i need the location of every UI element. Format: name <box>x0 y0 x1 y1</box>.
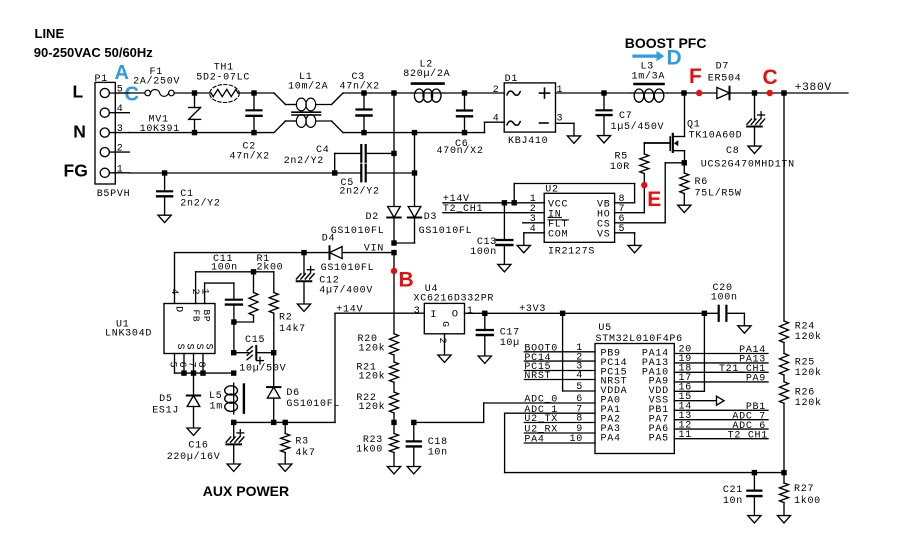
capacitor C15 10u/50V (electrolytic) <box>234 352 249 354</box>
resistor R27 1k00 <box>783 473 785 483</box>
connector P1 B5PVH <box>95 82 115 184</box>
svg-text:C4: C4 <box>316 145 329 156</box>
junction VDD riser <box>702 311 707 316</box>
junction C4 left (FG) <box>332 170 337 175</box>
net label PA14 / U5 pin20 <box>674 353 768 355</box>
wire VIN row <box>344 252 395 254</box>
svg-text:R25: R25 <box>795 358 815 369</box>
svg-text:B5PVH: B5PVH <box>97 189 131 200</box>
wire +3V3 rail <box>465 312 719 314</box>
diode D4 GS1010FL <box>330 247 343 259</box>
svg-text:T2_CH1: T2_CH1 <box>728 430 768 441</box>
capacitor C1 2n2/Y2 <box>164 173 166 191</box>
svg-text:1: 1 <box>117 164 124 175</box>
svg-text:O: O <box>452 309 459 321</box>
wire Q1 source to CS <box>665 162 684 164</box>
inductor L3 1m/3A <box>631 92 668 94</box>
svg-text:10n: 10n <box>723 496 743 507</box>
capacitor C13 100n <box>503 203 505 240</box>
ground (R27) <box>777 516 790 523</box>
wire N rail P1 to L1 <box>129 132 274 134</box>
resistor R3 4k7 <box>284 422 286 433</box>
junction C3 top <box>361 90 366 95</box>
net label PB1 / U5 pin14 <box>674 409 768 411</box>
junction MV1 bottom <box>192 130 197 135</box>
wire VDD riser <box>703 313 705 391</box>
svg-text:TK10A60D: TK10A60D <box>689 131 743 142</box>
svg-text:8: 8 <box>195 362 206 369</box>
diode D6 GS1010FL <box>273 353 275 387</box>
svg-text:R27: R27 <box>794 484 814 495</box>
svg-text:GS1010FL: GS1010FL <box>321 263 375 274</box>
svg-text:10n: 10n <box>428 448 448 459</box>
svg-text:14k7: 14k7 <box>279 323 306 335</box>
svg-text:PA4: PA4 <box>601 433 621 444</box>
svg-text:COM: COM <box>548 230 568 241</box>
ground (C17) <box>478 356 491 363</box>
svg-text:90-250VAC 50/60Hz: 90-250VAC 50/60Hz <box>34 45 153 60</box>
svg-text:2A/250V: 2A/250V <box>133 76 180 88</box>
svg-text:120k: 120k <box>795 367 822 379</box>
svg-text:NRST: NRST <box>524 371 551 382</box>
svg-text:STM32L010F4P6: STM32L010F4P6 <box>596 334 683 345</box>
junction VDDA riser <box>560 311 565 316</box>
svg-text:10m/2A: 10m/2A <box>288 80 328 92</box>
wire D1 pin1 to C7 <box>556 92 605 94</box>
capacitor C21 10n <box>753 473 755 491</box>
junction C2 bottom <box>251 130 256 135</box>
svg-text:FG: FG <box>64 161 88 181</box>
svg-text:4: 4 <box>168 289 179 296</box>
svg-text:120k: 120k <box>359 401 386 413</box>
svg-text:Q1: Q1 <box>687 120 700 131</box>
svg-text:U2: U2 <box>545 184 558 195</box>
capacitor C3 47n/X2 <box>357 108 372 110</box>
svg-text:AUX POWER: AUX POWER <box>203 483 289 499</box>
svg-text:10R: 10R <box>610 162 630 173</box>
transistor Q1 TK10A60D (MOSFET) <box>684 93 686 137</box>
wire L3 to Q1 node <box>668 92 685 94</box>
ground (U2 COM) <box>517 245 530 252</box>
svg-text:P1: P1 <box>95 74 108 85</box>
capacitor C7 1u5/450V <box>597 109 612 111</box>
wire +14V to U4 pin3 <box>335 312 424 314</box>
junction R3 top <box>283 420 288 425</box>
svg-text:D: D <box>173 306 184 313</box>
net label T21_CH1 / U5 pin18 <box>674 371 768 373</box>
IC U2 IR2127S <box>544 193 614 242</box>
svg-text:2n2/Y2: 2n2/Y2 <box>180 198 220 210</box>
wire N rail to D1 pin4 <box>415 132 485 134</box>
svg-text:R24: R24 <box>795 322 815 333</box>
svg-text:LINE: LINE <box>35 26 65 41</box>
wire ADC_0 sense <box>414 421 484 423</box>
svg-text:7: 7 <box>186 362 197 369</box>
svg-text:75L/R5W: 75L/R5W <box>695 188 742 200</box>
junction C15 left <box>231 350 236 355</box>
wire C7 to L3 <box>604 92 631 94</box>
junction C21 tap <box>752 470 757 475</box>
svg-text:C21: C21 <box>723 485 743 496</box>
svg-text:L: L <box>73 82 84 102</box>
resistor R6 75L/R5W <box>683 163 685 173</box>
wire HO to R5 <box>615 212 645 214</box>
svg-text:KBJ410: KBJ410 <box>508 136 548 147</box>
varistor MV1 10K391 <box>194 93 196 108</box>
thermistor TH1 5D2-07LC <box>211 89 238 96</box>
stub U2 pin3 FLT <box>523 222 545 224</box>
diode D3 GS1010FL <box>414 133 416 173</box>
junction MV1 top <box>192 90 197 95</box>
svg-text:D1: D1 <box>505 74 518 85</box>
junction C18 tap <box>411 420 416 425</box>
wire ADC_1 to HV divider <box>504 413 506 472</box>
svg-text:PA5: PA5 <box>649 433 669 444</box>
svg-text:GS1010FL: GS1010FL <box>331 226 385 237</box>
svg-text:L5: L5 <box>209 391 222 402</box>
svg-text:U5: U5 <box>598 323 611 334</box>
junction S rail / C11 line <box>231 370 236 375</box>
wire VDDA riser <box>562 313 564 391</box>
wire U5 pin16 VDD riser <box>674 390 704 392</box>
svg-text:3: 3 <box>117 124 124 135</box>
capacitor C16 220u/16V (electrolytic) <box>233 422 235 437</box>
wire +380V divider drop <box>783 93 785 321</box>
capacitor C17 10u <box>484 313 486 330</box>
svg-text:S: S <box>193 344 204 351</box>
capacitor C2 47n/X2 <box>247 109 262 111</box>
wire F1 to MV1 node <box>174 92 210 94</box>
svg-text:LNK304D: LNK304D <box>105 329 152 340</box>
inductor L1 10m/2A (common-mode choke) <box>274 93 286 105</box>
IC U1 LNK304D <box>164 304 215 354</box>
svg-text:2k00: 2k00 <box>257 262 284 274</box>
blue arrow marker <box>634 54 657 57</box>
svg-text:XC6216D332PR: XC6216D332PR <box>414 293 495 304</box>
svg-text:S: S <box>202 344 213 351</box>
svg-text:R5: R5 <box>615 152 628 163</box>
svg-text:B: B <box>399 268 414 291</box>
junction +14V out rail / C16 <box>231 420 236 425</box>
svg-text:1µ5/450V: 1µ5/450V <box>611 121 665 133</box>
svg-text:BP: BP <box>201 310 212 323</box>
svg-text:D5: D5 <box>159 394 172 405</box>
ground (C20) <box>738 326 751 333</box>
capacitor C8 UCS2G470MHD1TN (electrolytic) <box>754 93 756 119</box>
fuse F1 2A/250V <box>145 90 151 96</box>
svg-text:5D2-07LC: 5D2-07LC <box>196 73 250 84</box>
svg-text:220µ/16V: 220µ/16V <box>167 451 221 463</box>
junction R27 top <box>781 470 786 475</box>
svg-text:2: 2 <box>493 85 500 96</box>
wire U1 drain to VIN node <box>174 253 176 304</box>
svg-text:D: D <box>667 47 682 70</box>
svg-text:4: 4 <box>117 104 124 115</box>
net label PA13 / U5 pin19 <box>674 362 768 364</box>
svg-text:A: A <box>115 62 129 84</box>
wire D7 to C8 node <box>731 92 755 94</box>
svg-text:5: 5 <box>576 382 583 393</box>
resistor R26 120k <box>783 375 785 382</box>
svg-text:PA9: PA9 <box>746 374 766 385</box>
junction C17 tap <box>482 311 487 316</box>
junction C13 tap <box>502 200 507 205</box>
svg-text:S: S <box>183 344 194 351</box>
svg-text:5: 5 <box>117 85 124 96</box>
IC U4 XC6216D332PR <box>424 303 464 333</box>
resistor R22 120k <box>393 382 395 392</box>
ground (U2 VS) <box>628 245 641 252</box>
svg-text:1: 1 <box>557 85 564 96</box>
svg-text:I: I <box>430 309 437 321</box>
svg-text:47n/X2: 47n/X2 <box>340 80 380 92</box>
junction +380V divider tap <box>781 90 786 95</box>
svg-text:C17: C17 <box>500 327 520 338</box>
junction D2/D3 cathodes <box>391 240 396 245</box>
net label T2_CH1 / U5 pin11 <box>674 438 768 440</box>
svg-text:4µ7/400V: 4µ7/400V <box>319 285 373 297</box>
capacitor C5 2n2/Y2 <box>360 165 362 182</box>
capacitor C20 100n <box>718 306 720 321</box>
svg-text:E: E <box>647 188 661 211</box>
ground (C13) <box>498 264 511 271</box>
wire FG row <box>129 172 360 174</box>
svg-text:2: 2 <box>117 144 124 155</box>
resistor R21 120k <box>393 355 395 362</box>
svg-text:PA4: PA4 <box>524 435 544 446</box>
junction C1 tap <box>162 170 167 175</box>
svg-text:C: C <box>763 66 778 89</box>
net label ADC_6 / U5 pin12 <box>674 428 768 430</box>
svg-text:4k7: 4k7 <box>295 447 315 459</box>
wire U1 FB <box>195 272 197 304</box>
junction R1 top <box>251 269 256 274</box>
node C (red) <box>755 92 785 94</box>
ground (C12) <box>297 304 310 311</box>
junction D3 top (N rail) <box>412 130 417 135</box>
svg-text:S: S <box>174 344 185 351</box>
svg-text:D7: D7 <box>716 62 729 73</box>
junction D2 top <box>391 90 396 95</box>
ground (D5) <box>187 428 200 435</box>
svg-text:R3: R3 <box>295 437 308 448</box>
svg-text:D2: D2 <box>366 212 379 223</box>
wire U2 pin5 VS to ground <box>615 232 635 234</box>
svg-text:N: N <box>73 121 86 141</box>
capacitor C11 100n <box>233 283 235 300</box>
capacitor C12 4u7/400V (electrolytic) <box>303 253 305 274</box>
capacitor C4 2n2/Y2 <box>335 152 362 154</box>
diode D7 ER504 <box>717 87 730 98</box>
junction D4 cathode / C12 <box>301 250 306 255</box>
svg-text:1m/3A: 1m/3A <box>632 71 666 83</box>
svg-text:2n2/Y2: 2n2/Y2 <box>284 155 324 167</box>
wire U1 BP to C11 <box>204 283 206 303</box>
svg-text:+3V3: +3V3 <box>519 304 546 315</box>
wire +14V out rail <box>234 421 335 423</box>
junction C6 top <box>462 90 467 95</box>
svg-text:3: 3 <box>414 306 421 317</box>
svg-text:C8: C8 <box>726 146 739 157</box>
junction Q1 source <box>682 160 687 165</box>
junction C15 right <box>271 350 276 355</box>
ground (C18) <box>407 467 420 474</box>
node B (red) <box>393 253 395 334</box>
svg-text:120k: 120k <box>359 342 386 354</box>
svg-text:6: 6 <box>176 362 187 369</box>
svg-text:120k: 120k <box>359 370 386 382</box>
svg-text:R6: R6 <box>695 177 708 188</box>
resistor R2 14k7 <box>273 272 275 293</box>
svg-text:120k: 120k <box>795 331 822 343</box>
wire L rail P1 to F1 <box>115 92 145 94</box>
wire U4 pin2 to ground <box>444 334 446 355</box>
svg-text:+380V: +380V <box>795 82 832 94</box>
junction D6 bottom <box>271 420 276 425</box>
junction VIN <box>391 250 396 255</box>
svg-text:UCS2G470MHD1TN: UCS2G470MHD1TN <box>701 159 795 170</box>
junction C3 bottom <box>361 130 366 135</box>
svg-text:IR2127S: IR2127S <box>548 247 595 258</box>
ground (U4) <box>438 355 451 362</box>
svg-text:470n/X2: 470n/X2 <box>437 145 484 157</box>
wire +380V rail <box>784 92 848 94</box>
svg-text:VS: VS <box>597 230 610 241</box>
svg-text:100n: 100n <box>711 293 738 304</box>
svg-text:4: 4 <box>493 114 500 125</box>
net label ADC_7 / U5 pin13 <box>674 419 768 421</box>
junction C7 top <box>601 90 606 95</box>
svg-text:F: F <box>689 65 702 88</box>
diode D5 ES1J <box>193 373 195 395</box>
ground arrow (VSS) <box>717 396 725 405</box>
junction divider tap <box>391 420 396 425</box>
junction C6 bottom <box>462 130 467 135</box>
wire T2_CH1 to U2 pin2 <box>443 212 544 214</box>
ground (C1) <box>158 215 171 222</box>
inductor L2 820u/2A <box>394 92 412 94</box>
svg-text:C15: C15 <box>245 335 265 346</box>
ground (R23) <box>387 467 400 474</box>
ground (C21) <box>748 516 761 523</box>
capacitor C6 470n/X2 <box>457 109 472 111</box>
svg-text:D6: D6 <box>286 388 299 399</box>
svg-text:GS1010FL: GS1010FL <box>419 226 473 237</box>
resistor R24 120k <box>780 321 789 343</box>
junction R1 bottom / C11 <box>231 319 236 324</box>
svg-text:100n: 100n <box>470 247 497 258</box>
wire VB bootstrap loop <box>513 184 515 203</box>
svg-text:G: G <box>440 321 451 327</box>
svg-text:47n/X2: 47n/X2 <box>230 151 270 163</box>
svg-text:D3: D3 <box>424 212 437 223</box>
ground (C7) <box>597 136 610 143</box>
svg-text:1: 1 <box>467 306 474 317</box>
capacitor C18 10n <box>413 422 415 441</box>
junction S pins <box>181 370 186 375</box>
junction C8 top <box>752 90 757 95</box>
svg-text:10K391: 10K391 <box>140 124 180 135</box>
resistor R23 1k00 <box>393 422 395 433</box>
junction VB loop tap <box>512 200 517 205</box>
ground (R3) <box>279 464 292 471</box>
node E (red) <box>643 174 645 213</box>
svg-text:5: 5 <box>167 362 178 369</box>
resistor R5 10R <box>643 143 645 154</box>
svg-text:1k00: 1k00 <box>794 495 821 507</box>
svg-text:2: 2 <box>189 289 200 296</box>
svg-text:ES1J: ES1J <box>152 406 179 417</box>
resistor R25 120k <box>783 343 785 354</box>
svg-text:C16: C16 <box>188 441 208 452</box>
bridge rectifier D1 KBJ410 <box>504 83 555 132</box>
ground (D1) <box>567 136 580 143</box>
IC U5 STM32L010F4P6 <box>595 344 674 454</box>
ground (C8) <box>748 146 761 153</box>
svg-text:R26: R26 <box>795 388 815 399</box>
wire TH1 to C2 node <box>238 92 274 94</box>
svg-text:1k00: 1k00 <box>356 444 383 456</box>
svg-text:GS1010FL: GS1010FL <box>286 399 340 410</box>
wire +14V riser <box>334 314 336 423</box>
resistor R20 120k <box>390 334 399 355</box>
svg-text:10µ: 10µ <box>500 338 520 349</box>
svg-text:120k: 120k <box>795 397 822 409</box>
svg-text:C7: C7 <box>619 111 632 122</box>
junction Q1 drain <box>681 90 686 95</box>
resistor R1 2k00 <box>253 272 255 293</box>
svg-text:C18: C18 <box>428 437 448 448</box>
wire U5 pin15 VSS <box>674 400 716 402</box>
svg-text:820µ/2A: 820µ/2A <box>403 68 450 80</box>
svg-text:2n2/Y2: 2n2/Y2 <box>339 185 379 197</box>
ground (C16) <box>227 464 240 471</box>
svg-text:R2: R2 <box>279 313 292 324</box>
svg-text:D4: D4 <box>322 233 335 244</box>
svg-text:U2_TX: U2_TX <box>524 414 558 425</box>
wire +14V to U2 pin1 <box>443 202 544 204</box>
wire U2 pin4 COM to ground <box>524 232 544 234</box>
svg-text:FB: FB <box>191 310 202 323</box>
S rail <box>175 372 234 374</box>
ground (R6) <box>678 205 691 212</box>
node F (red) <box>684 92 717 94</box>
inductor L5 1m <box>233 383 235 414</box>
svg-text:10µ/50V: 10µ/50V <box>239 362 286 374</box>
net label PA9 / U5 pin17 <box>674 381 768 383</box>
junction C2 top <box>251 90 256 95</box>
svg-text:100n: 100n <box>211 263 238 274</box>
wire D1 pin3 to ground <box>556 122 575 124</box>
svg-text:ER504: ER504 <box>708 73 742 84</box>
diode D2 GS1010FL <box>393 93 395 153</box>
svg-text:1m: 1m <box>210 402 223 413</box>
wire C3 to D2 node <box>364 92 394 94</box>
